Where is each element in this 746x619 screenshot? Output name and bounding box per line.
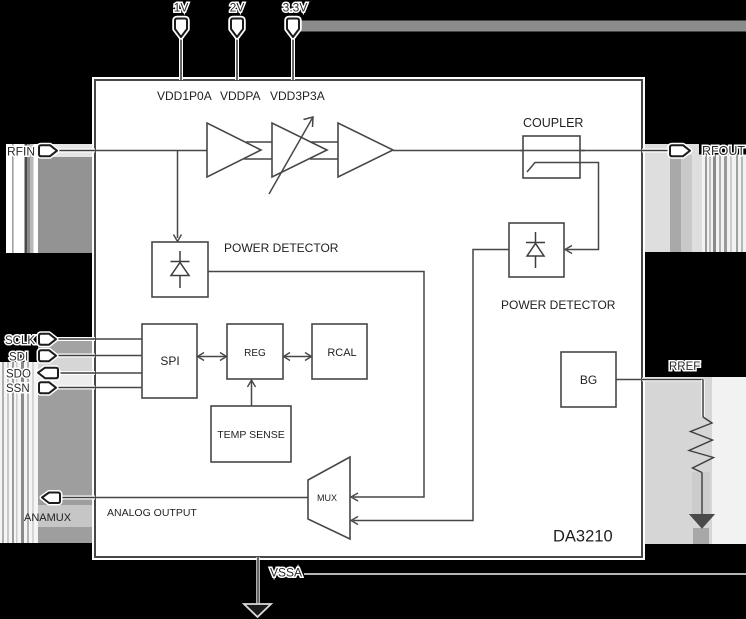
pin 3.3V line <box>291 36 295 80</box>
pin ANAMUX pointing left <box>42 493 95 504</box>
right black band <box>643 252 746 377</box>
svg-text:COUPLER: COUPLER <box>523 116 583 130</box>
svg-text:ANALOG OUTPUT: ANALOG OUTPUT <box>107 507 197 519</box>
coupler secondary line <box>527 163 599 250</box>
svg-text:SSN: SSN <box>6 383 30 395</box>
power detector PD1 box <box>152 242 208 297</box>
diode D1 <box>171 251 190 288</box>
pin 1V line <box>179 36 183 80</box>
pin SDI <box>39 350 95 361</box>
ground triangle VSSA <box>244 604 271 617</box>
wire RREF outside <box>642 380 703 418</box>
amplifier A2 variable <box>272 123 327 177</box>
svg-text:SDO: SDO <box>6 369 31 381</box>
svg-text:RREF: RREF <box>669 361 700 373</box>
coupler box <box>523 136 580 178</box>
svg-text:TEMP SENSE: TEMP SENSE <box>217 429 285 441</box>
BG box <box>561 352 616 407</box>
svg-text:VDDPA: VDDPA <box>220 89 260 103</box>
SPI input wires inside box <box>95 339 142 388</box>
pin symbol 2V <box>231 19 243 38</box>
mux trapezoid <box>308 457 350 539</box>
wire branch down to power detector 1 <box>177 151 179 239</box>
amplifier A1 <box>207 123 261 177</box>
gain control arrow through A2 <box>269 117 313 194</box>
svg-text:1V: 1V <box>174 1 189 15</box>
power detector PD2 box <box>509 223 564 277</box>
temp sense box <box>211 406 291 462</box>
svg-text:RFIN: RFIN <box>7 145 35 159</box>
svg-text:SCLK: SCLK <box>5 335 35 347</box>
wire BG to RREF inside box <box>616 379 642 381</box>
svg-text:POWER DETECTOR: POWER DETECTOR <box>224 241 339 255</box>
wire VSSA down from box <box>256 557 260 604</box>
pin 2V line <box>235 36 239 80</box>
svg-text:RFOUT: RFOUT <box>702 144 745 158</box>
differential wires between amps <box>244 142 338 159</box>
svg-text:BG: BG <box>580 373 597 387</box>
svg-text:VSSA: VSSA <box>270 566 302 580</box>
wire VSSA horizontal white line <box>304 573 746 575</box>
pin symbol 3.3V <box>287 19 299 38</box>
pin SCLK <box>39 334 95 345</box>
svg-text:MUX: MUX <box>317 493 337 503</box>
right gray region below RFOUT <box>643 144 746 252</box>
pin SDO pointing left <box>38 368 95 379</box>
wire analog output <box>95 497 308 499</box>
left striped patch lower <box>0 362 38 543</box>
svg-text:3.3V: 3.3V <box>283 1 308 15</box>
left gray rows at SPI pins <box>22 339 95 543</box>
amplifier A3 <box>338 123 393 177</box>
resistor RREF zigzag <box>689 417 714 473</box>
svg-text:VDD1P0A: VDD1P0A <box>157 89 212 103</box>
right gray region at RREF resistor <box>643 377 746 544</box>
resistor shaft <box>701 473 703 515</box>
wire RFIN to amp <box>95 150 207 152</box>
REG box <box>227 324 283 379</box>
diode D2 <box>526 232 545 268</box>
svg-text:POWER DETECTOR: POWER DETECTOR <box>501 298 616 312</box>
wire PD1 to mux <box>208 272 424 498</box>
svg-text:SPI: SPI <box>160 354 179 368</box>
left striped patch upper <box>6 144 95 253</box>
svg-text:2V: 2V <box>230 1 245 15</box>
pin RFIN <box>39 145 95 156</box>
svg-text:ANAMUX: ANAMUX <box>24 512 72 524</box>
gray band top right <box>299 21 746 32</box>
svg-text:VDD3P3A: VDD3P3A <box>270 89 325 103</box>
wire RF out of amp through coupler to box edge <box>393 150 642 152</box>
pin symbol 1V <box>175 19 187 38</box>
wire PD2 to mux <box>353 250 509 521</box>
arrow SPI-REG <box>197 353 227 361</box>
pin SSN <box>39 382 95 393</box>
RF line through coupler <box>520 150 585 152</box>
svg-text:REG: REG <box>244 348 266 359</box>
svg-text:DA3210: DA3210 <box>553 528 613 546</box>
RCAL box <box>312 324 367 379</box>
outer block DA3210 white box <box>95 80 642 557</box>
arrowhead into PD1 <box>174 235 182 242</box>
arrow REG-RCAL <box>283 353 312 361</box>
svg-text:SDI: SDI <box>9 352 28 364</box>
arrow TEMP SENSE to REG <box>251 381 253 406</box>
pin RFOUT <box>642 145 690 156</box>
arrowhead ground at resistor bottom <box>690 515 714 529</box>
SPI box <box>142 324 197 398</box>
svg-text:RCAL: RCAL <box>327 347 356 359</box>
